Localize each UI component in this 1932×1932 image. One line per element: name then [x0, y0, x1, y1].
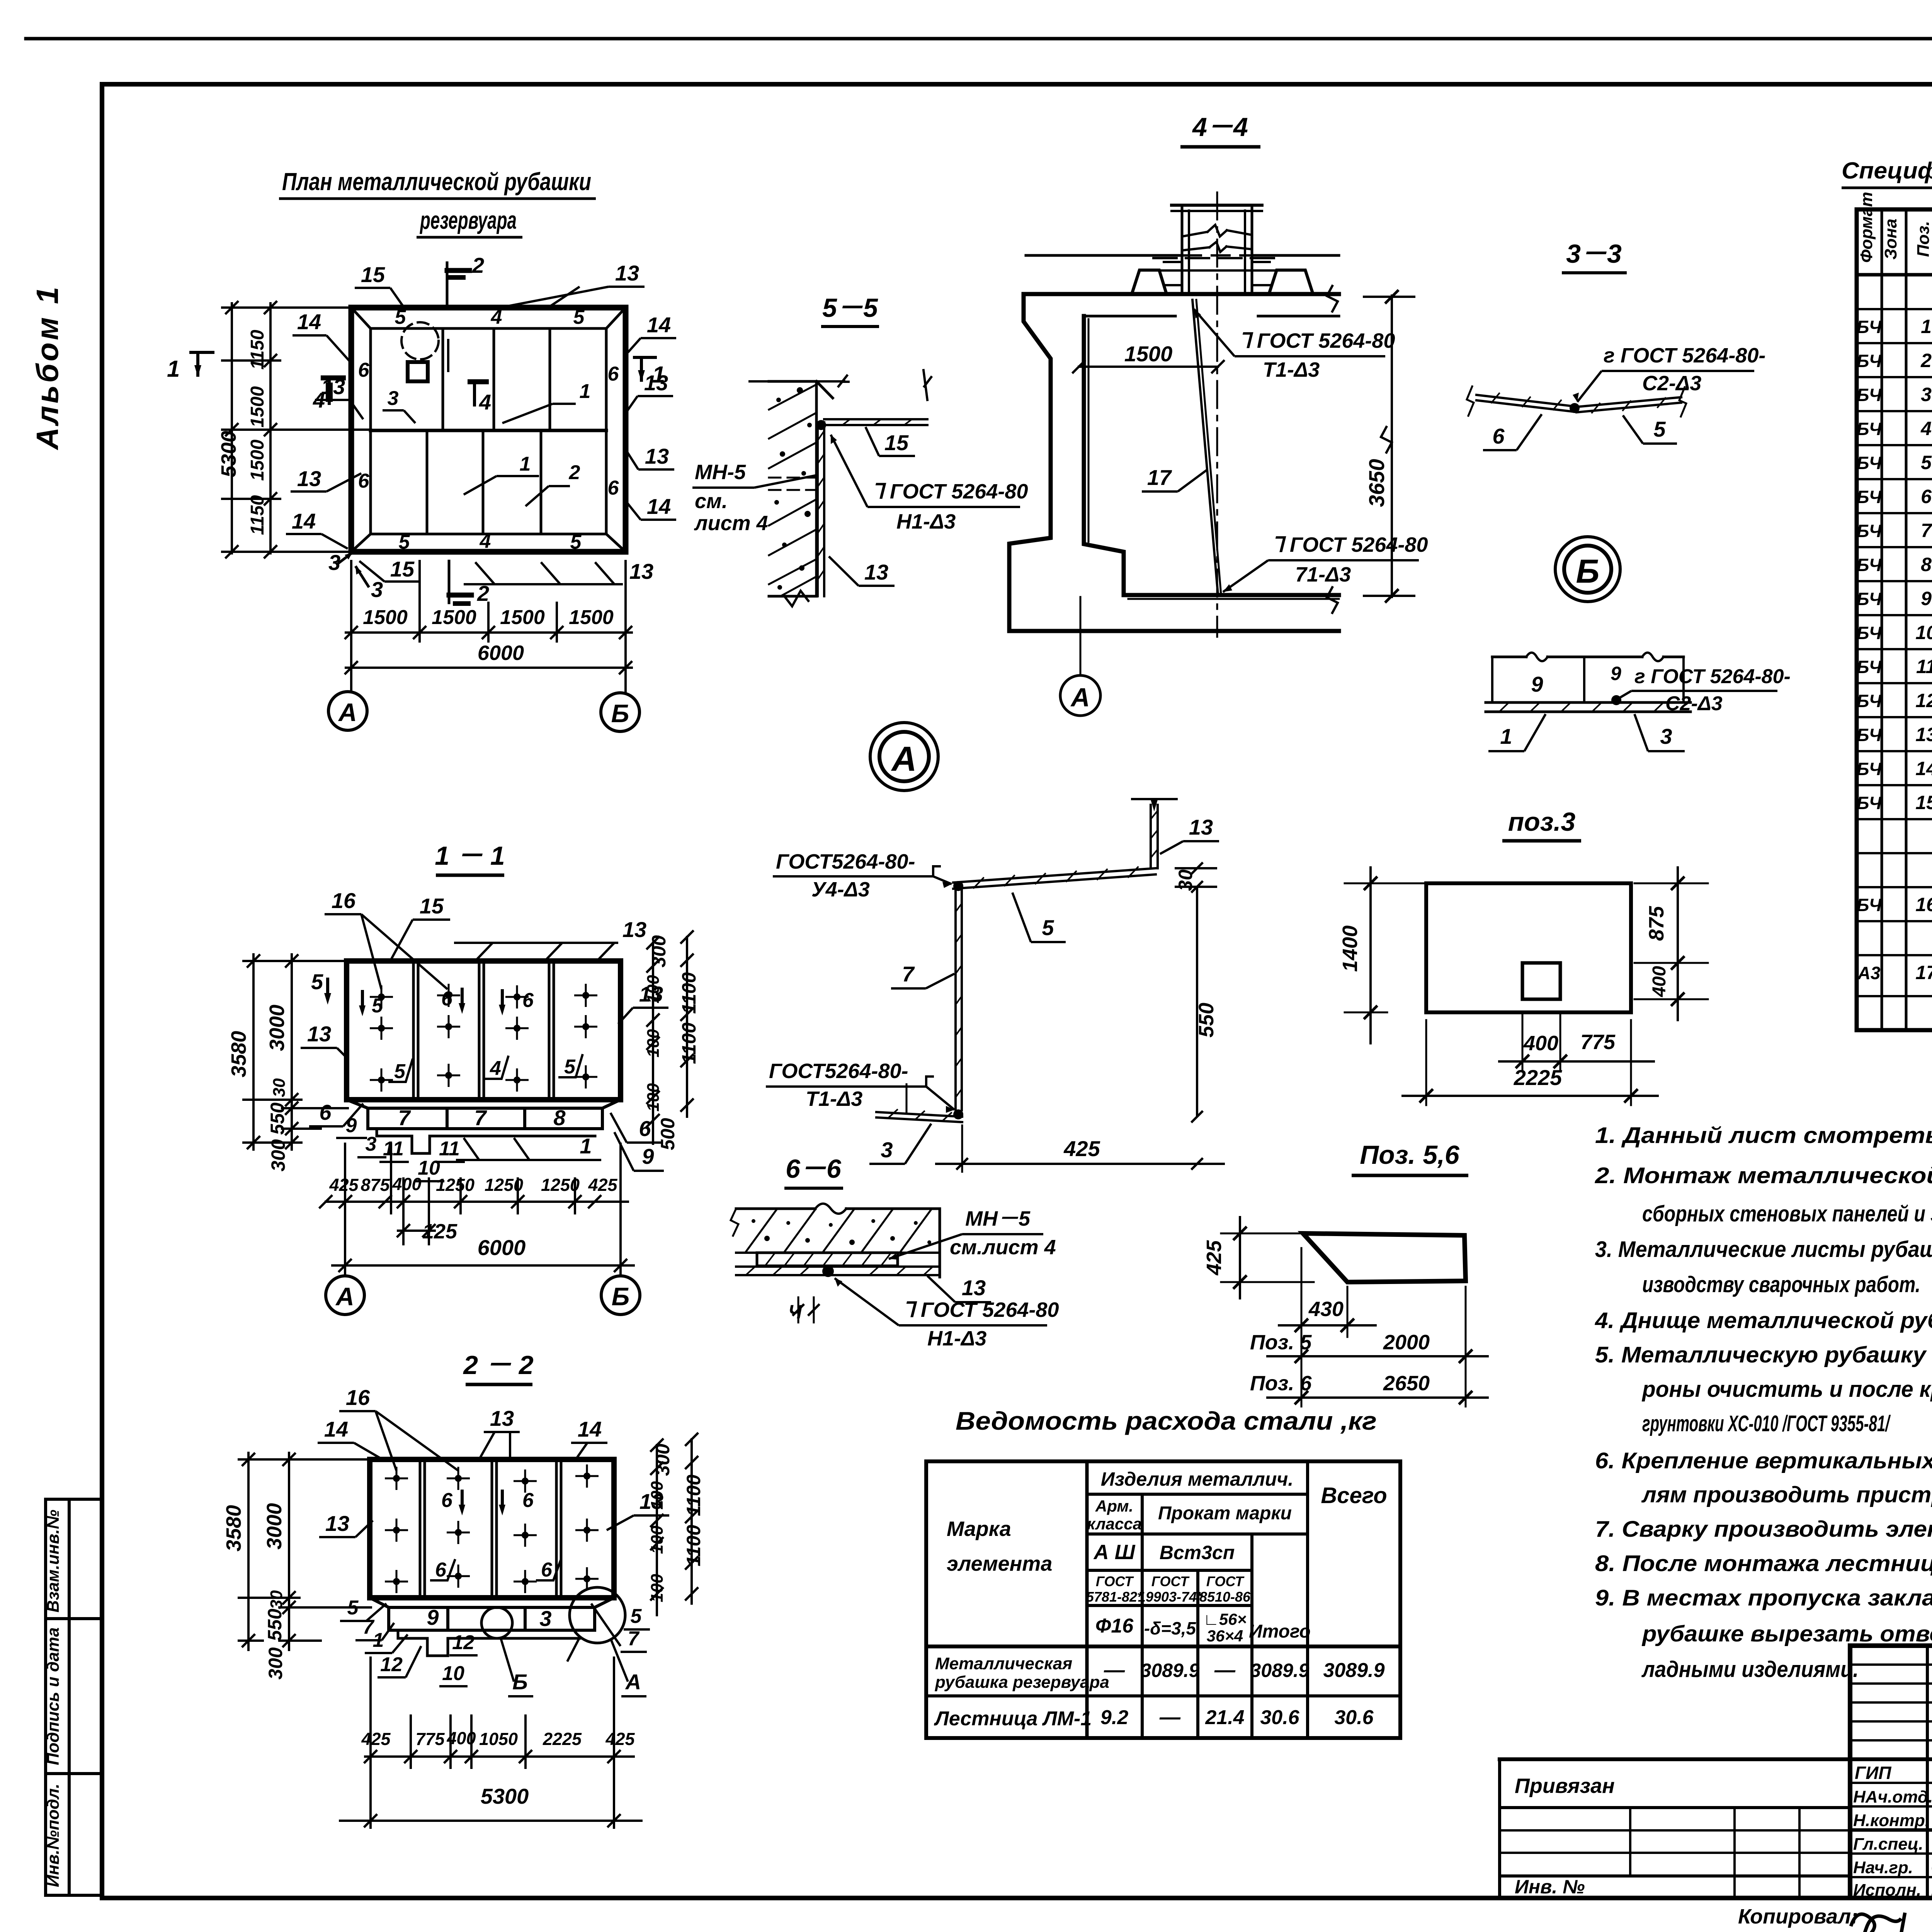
svg-text:4: 4 [1920, 418, 1932, 439]
svg-text:425: 425 [605, 1729, 635, 1749]
svg-text:1150: 1150 [247, 495, 268, 535]
svg-text:Альбом 1: Альбом 1 [30, 284, 65, 450]
svg-text:6: 6 [441, 1489, 453, 1512]
svg-text:6: 6 [608, 363, 619, 385]
svg-text:сборных стеновых панелей и: сборных стеновых панелей и заделки швов … [1642, 1201, 1932, 1226]
svg-text:30: 30 [1175, 869, 1196, 891]
svg-text:МН-5: МН-5 [695, 461, 746, 484]
svg-text:1100: 1100 [683, 1475, 704, 1516]
svg-text:Б: Б [612, 1282, 630, 1311]
svg-text:6: 6 [435, 1559, 447, 1581]
svg-text:Нач.гр.: Нач.гр. [1853, 1858, 1913, 1877]
svg-text:13: 13 [307, 1022, 331, 1046]
svg-text:БЧ: БЧ [1857, 521, 1882, 541]
5-5 weld dot [816, 420, 826, 430]
svg-text:2: 2 [472, 253, 484, 277]
1-1 floor sheet edge [377, 1129, 595, 1153]
svg-text:15: 15 [1915, 792, 1932, 813]
svg-text:ᒣ ГОСТ 5264-80: ᒣ ГОСТ 5264-80 [1238, 329, 1395, 352]
svg-text:резервуара: резервуара [420, 206, 517, 234]
svg-text:13: 13 [297, 466, 321, 491]
big detail circle A [870, 723, 938, 791]
svg-text:8: 8 [553, 1105, 566, 1130]
5-5 construction joint dashed [769, 477, 816, 479]
svg-text:грунтовки ХС-010 /ГОСТ 9355-: грунтовки ХС-010 /ГОСТ 9355-81/ [1642, 1411, 1891, 1436]
svg-text:3: 3 [366, 1133, 377, 1155]
svg-text:1150: 1150 [247, 330, 268, 370]
svg-text:1 － 1: 1 － 1 [435, 841, 505, 871]
z-profile 425 dim [961, 1124, 963, 1173]
svg-text:Взам.инв.№: Взам.инв.№ [44, 1510, 63, 1612]
svg-text:Вст3сп: Вст3сп [1160, 1542, 1235, 1563]
6-6 weld dot [822, 1265, 834, 1277]
svg-text:30.6: 30.6 [1260, 1706, 1299, 1729]
svg-text:100: 100 [648, 1526, 667, 1554]
svg-text:7: 7 [902, 962, 915, 986]
svg-text:5781-82*: 5781-82* [1086, 1589, 1143, 1605]
svg-text:9. В местах пропуска заклад: 9. В местах пропуска закладных изделий К… [1595, 1585, 1932, 1611]
z-profile 30 dim [1175, 867, 1217, 869]
2-2 wall panels outline [370, 1459, 614, 1598]
svg-text:поз.3: поз.3 [1508, 807, 1576, 837]
svg-text:550: 550 [264, 1609, 286, 1641]
svg-text:11: 11 [439, 1138, 460, 1160]
svg-text:БЧ: БЧ [1857, 725, 1882, 745]
svg-text:4: 4 [479, 390, 491, 414]
svg-text:1500: 1500 [363, 606, 408, 629]
2-2 bottom dim lines [365, 1755, 634, 1758]
svg-text:5: 5 [631, 1605, 642, 1628]
svg-text:А3: А3 [1857, 963, 1881, 983]
svg-text:425: 425 [1202, 1240, 1226, 1276]
svg-text:БЧ: БЧ [1857, 453, 1882, 473]
svg-text:16: 16 [1915, 894, 1932, 915]
svg-text:1100: 1100 [678, 1022, 700, 1064]
svg-text:Спецификация изделий на мет: Спецификация изделий на металлическую ру… [1842, 158, 1932, 184]
svg-text:БЧ: БЧ [1857, 555, 1882, 575]
svg-text:ГОСТ: ГОСТ [1096, 1573, 1134, 1589]
svg-text:10: 10 [442, 1662, 464, 1685]
svg-text:6: 6 [319, 1100, 332, 1124]
svg-text:9: 9 [346, 1114, 357, 1137]
svg-text:6: 6 [608, 477, 619, 499]
svg-text:14: 14 [647, 494, 671, 519]
svg-text:1500: 1500 [569, 606, 614, 629]
svg-text:1: 1 [580, 1134, 592, 1158]
6-6 aggregate dots [752, 1219, 931, 1245]
svg-text:3－3: 3－3 [1566, 239, 1622, 269]
svg-text:5: 5 [394, 1060, 406, 1083]
joint weld dot [1611, 695, 1621, 705]
svg-text:9: 9 [1611, 663, 1621, 684]
svg-text:12: 12 [452, 1631, 474, 1654]
5-5 concrete wall outline [769, 381, 816, 596]
svg-text:550: 550 [267, 1102, 288, 1135]
svg-text:1500: 1500 [1124, 342, 1173, 366]
svg-text:14: 14 [324, 1417, 348, 1441]
svg-text:30.6: 30.6 [1334, 1706, 1374, 1729]
svg-text:БЧ: БЧ [1857, 419, 1882, 439]
svg-text:ᒣ ГОСТ 5264-80: ᒣ ГОСТ 5264-80 [1271, 533, 1428, 556]
1-1 bottom flange [347, 1100, 621, 1108]
4-4 axis circle A [1060, 675, 1100, 716]
svg-text:БЧ: БЧ [1857, 589, 1882, 609]
plan top-half panel joints [442, 328, 444, 430]
svg-text:125: 125 [422, 1220, 457, 1243]
svg-text:элемента: элемента [947, 1552, 1052, 1575]
svg-text:БЧ: БЧ [1857, 793, 1882, 813]
svg-text:9.2: 9.2 [1100, 1706, 1128, 1729]
svg-text:Подпись и дата: Подпись и дата [44, 1628, 63, 1765]
svg-text:15: 15 [390, 557, 415, 581]
svg-text:11: 11 [383, 1138, 404, 1160]
2-2 panel joints [419, 1459, 422, 1598]
svg-text:13: 13 [325, 1511, 349, 1536]
svg-text:875: 875 [361, 1175, 390, 1195]
2-2 bottom strip [389, 1607, 595, 1630]
svg-text:1: 1 [652, 362, 665, 388]
svg-text:3: 3 [881, 1138, 893, 1162]
svg-text:5: 5 [399, 531, 410, 553]
svg-text:13: 13 [629, 559, 653, 583]
svg-text:13: 13 [962, 1276, 986, 1300]
6-6 thickness dim 4 [798, 1296, 799, 1323]
svg-text:6: 6 [541, 1559, 553, 1581]
svg-text:12: 12 [1915, 690, 1932, 711]
svg-text:Поз.: Поз. [1914, 221, 1932, 257]
1-1 axis circle A [326, 1276, 364, 1315]
svg-text:рубашка резервуара: рубашка резервуара [935, 1673, 1109, 1692]
left extension table [1498, 1759, 1501, 1898]
svg-text:ГОСТ5264-80-: ГОСТ5264-80- [776, 850, 915, 873]
svg-text:425: 425 [1063, 1136, 1100, 1161]
svg-text:Ведомость расхода стали ,кг: Ведомость расхода стали ,кг [956, 1406, 1377, 1435]
pos56 ref verticals [1301, 1248, 1303, 1406]
pos56 2000 dim [1267, 1355, 1488, 1357]
svg-text:1500: 1500 [432, 606, 476, 629]
svg-text:15: 15 [420, 894, 444, 918]
svg-text:775: 775 [1580, 1031, 1616, 1054]
svg-text:рубашке вырезать отверстия: рубашке вырезать отверстия по месту и об… [1641, 1621, 1932, 1646]
4-4 right break marks [1327, 286, 1338, 311]
svg-text:13: 13 [864, 560, 888, 584]
svg-text:1: 1 [520, 453, 531, 475]
svg-text:7: 7 [1921, 520, 1932, 541]
svg-text:1050: 1050 [479, 1729, 518, 1749]
svg-text:100: 100 [648, 1574, 667, 1602]
svg-text:19903-74*: 19903-74* [1138, 1589, 1203, 1605]
svg-text:2. Монтаж металлической руб: 2. Монтаж металлической рубашки начинать… [1595, 1163, 1932, 1188]
1-1 axis circle B [601, 1276, 640, 1315]
4-4 axis leader [1080, 597, 1082, 675]
svg-text:БЧ: БЧ [1857, 317, 1882, 337]
4-4 3650 dim [1391, 296, 1393, 597]
svg-text:400: 400 [1523, 1032, 1558, 1055]
page top spine line [26, 37, 1932, 41]
plan section 2-2 trace vertical top [446, 263, 449, 309]
plan corner chamfers [351, 308, 371, 328]
svg-text:5: 5 [1042, 915, 1054, 940]
svg-text:4: 4 [490, 1057, 501, 1080]
svg-text:БЧ: БЧ [1857, 623, 1882, 643]
plan inner outline [371, 328, 606, 534]
svg-text:Б: Б [1576, 553, 1600, 590]
svg-text:Лестница ЛМ-1: Лестница ЛМ-1 [934, 1708, 1092, 1730]
svg-text:425: 425 [361, 1729, 391, 1749]
svg-text:100: 100 [644, 1029, 663, 1058]
svg-text:—: — [1159, 1706, 1181, 1729]
svg-text:5－5: 5－5 [822, 293, 878, 323]
svg-text:БЧ: БЧ [1857, 657, 1882, 677]
svg-text:6: 6 [522, 989, 534, 1012]
joint bottom plate [1486, 701, 1690, 704]
joint upper sheets outline [1492, 656, 1526, 658]
svg-text:13: 13 [615, 261, 639, 285]
svg-text:Б: Б [512, 1670, 528, 1694]
svg-text:3: 3 [388, 387, 399, 410]
2-2 bottom flange [370, 1598, 614, 1607]
svg-text:8. После монтажа лестницы Л: 8. После монтажа лестницы ЛМ-1 окрасить … [1595, 1551, 1932, 1576]
svg-text:5: 5 [570, 531, 582, 553]
plan axis circle B [601, 693, 639, 731]
svg-text:15: 15 [361, 262, 385, 287]
plan axis circle A [328, 692, 367, 730]
plan bottom-half panel joints [426, 430, 429, 534]
2-2 left dim lines [247, 1453, 250, 1650]
3-3 right plate [1577, 397, 1681, 407]
4-4 left outer wall profile [1009, 294, 1339, 631]
6-6 concrete band outline [736, 1207, 815, 1210]
svg-text:У4-Δ3: У4-Δ3 [811, 878, 870, 901]
svg-text:3089.9: 3089.9 [1323, 1659, 1384, 1682]
plan left dim lines [231, 303, 233, 553]
4-4 1500 dim [1079, 366, 1218, 368]
6-6 bottom jacket sheet [736, 1265, 940, 1268]
svg-text:5: 5 [573, 306, 585, 328]
z-profile top flange [953, 868, 1156, 883]
svg-text:5: 5 [372, 995, 383, 1017]
svg-text:1250: 1250 [485, 1175, 523, 1195]
detail circle B [1555, 537, 1620, 602]
spec table frame [1857, 209, 1932, 1030]
svg-text:см.: см. [695, 490, 728, 513]
svg-text:17: 17 [1147, 465, 1172, 490]
svg-text:7: 7 [474, 1105, 487, 1130]
6-6 embedded plate MN-5 [757, 1253, 898, 1266]
svg-text:300: 300 [267, 1139, 289, 1172]
pos3 1400 dim [1369, 867, 1372, 1043]
svg-text:9: 9 [427, 1605, 439, 1629]
svg-text:Всего: Всего [1321, 1483, 1387, 1508]
svg-text:71-Δ3: 71-Δ3 [1295, 563, 1351, 586]
6-6 concrete hatch [746, 1209, 777, 1252]
svg-text:Привязан: Привязан [1515, 1774, 1615, 1798]
svg-text:30: 30 [270, 1078, 289, 1097]
5-5 metal angle top leg [824, 418, 927, 420]
svg-text:9: 9 [1921, 588, 1932, 609]
svg-text:875: 875 [1645, 906, 1668, 941]
svg-text:лям производить пристрелкой: лям производить пристрелкой дюбелями ДГ … [1641, 1482, 1932, 1507]
svg-text:7: 7 [398, 1105, 411, 1130]
svg-text:12: 12 [380, 1653, 403, 1676]
svg-text:Итого: Итого [1249, 1621, 1311, 1642]
4-4 metal liner lines [1088, 319, 1090, 542]
svg-text:1: 1 [167, 356, 180, 382]
svg-text:Т1-Δ3: Т1-Δ3 [1263, 358, 1320, 381]
svg-text:6: 6 [1921, 486, 1932, 507]
svg-text:Изделия металлич.: Изделия металлич. [1101, 1468, 1294, 1490]
plan section 2-2 trace bottom [448, 561, 451, 603]
svg-text:13: 13 [645, 444, 669, 468]
svg-text:3650: 3650 [1364, 459, 1389, 507]
left attribute boxes [46, 1498, 99, 1501]
svg-text:5: 5 [564, 1056, 576, 1078]
svg-text:А: А [335, 1282, 354, 1311]
svg-text:2650: 2650 [1383, 1372, 1430, 1395]
svg-text:6: 6 [441, 988, 453, 1010]
svg-text:3: 3 [1660, 724, 1672, 748]
svg-text:БЧ: БЧ [1857, 487, 1882, 507]
svg-text:15: 15 [884, 430, 909, 455]
svg-text:1: 1 [1921, 316, 1932, 337]
4-4 roof slab bottom [1086, 315, 1175, 318]
plan left dim ticks [226, 302, 238, 313]
svg-text:5300: 5300 [217, 431, 240, 477]
1-1 bottom strip [368, 1108, 602, 1129]
svg-text:А: А [1070, 683, 1090, 712]
svg-text:3: 3 [1921, 384, 1932, 405]
svg-text:16: 16 [332, 888, 356, 913]
svg-text:ГОСТ5264-80-: ГОСТ5264-80- [769, 1060, 908, 1083]
svg-text:6. Крепление вертикальных э: 6. Крепление вертикальных элементов /поз… [1595, 1448, 1932, 1473]
svg-text:Т1-Δ3: Т1-Δ3 [806, 1087, 862, 1111]
1-1 right dim lines [652, 943, 654, 1144]
svg-text:Формат: Формат [1857, 192, 1876, 263]
svg-text:6: 6 [1492, 424, 1505, 448]
svg-text:1100: 1100 [678, 972, 700, 1014]
signature rows [1850, 1782, 1932, 1784]
svg-text:1100: 1100 [683, 1525, 704, 1566]
svg-text:9: 9 [1531, 672, 1543, 696]
steel table frame [926, 1461, 1400, 1738]
svg-text:10: 10 [1915, 622, 1932, 643]
5-5 metal angle vertical leg [816, 422, 819, 596]
svg-text:6: 6 [522, 1489, 534, 1512]
svg-text:30: 30 [267, 1590, 286, 1609]
pos56 425 dim [1239, 1217, 1241, 1298]
svg-text:∟56×: ∟56× [1203, 1610, 1247, 1628]
svg-text:8: 8 [1921, 554, 1932, 575]
svg-text:изводству сварочных работ.: изводству сварочных работ. [1642, 1272, 1920, 1297]
svg-text:6－6: 6－6 [786, 1154, 842, 1184]
svg-text:—: — [1214, 1658, 1236, 1682]
svg-text:3. Металлические листы руба: 3. Металлические листы рубашки должны бы… [1595, 1237, 1932, 1262]
svg-text:БЧ: БЧ [1857, 759, 1882, 779]
5-5 wall hatching [769, 384, 816, 410]
svg-text:4: 4 [491, 306, 502, 328]
svg-text:6000: 6000 [478, 641, 524, 665]
svg-text:А: А [338, 698, 357, 726]
svg-text:400: 400 [1649, 966, 1670, 997]
svg-text:3580: 3580 [227, 1031, 250, 1077]
svg-text:300: 300 [648, 935, 670, 968]
2-2 anchor crosses [385, 1478, 408, 1480]
svg-text:Прокат марки: Прокат марки [1158, 1503, 1292, 1524]
svg-text:300: 300 [652, 1444, 673, 1476]
z-profile web [954, 889, 957, 1110]
svg-text:17: 17 [1915, 962, 1932, 983]
svg-text:9: 9 [642, 1144, 654, 1168]
1-1 left dim lines [252, 954, 255, 1150]
4-4 inner wall and floor [1084, 316, 1339, 595]
svg-text:Марка: Марка [947, 1517, 1011, 1541]
svg-text:11: 11 [1916, 656, 1932, 677]
svg-text:2: 2 [569, 461, 580, 484]
svg-text:План металлической рубашки: План металлической рубашки [282, 168, 591, 196]
svg-text:Копировал:: Копировал: [1738, 1905, 1858, 1928]
svg-text:ладными изделиями.: ладными изделиями. [1641, 1657, 1859, 1682]
svg-text:ᒣ ГОСТ 5264-80: ᒣ ГОСТ 5264-80 [902, 1298, 1059, 1321]
svg-text:13: 13 [639, 1489, 663, 1514]
svg-text:6: 6 [358, 359, 370, 381]
svg-text:21.4: 21.4 [1205, 1706, 1244, 1729]
4-4 hatch chimney [1181, 205, 1184, 293]
svg-text:5: 5 [311, 969, 323, 994]
svg-text:13: 13 [490, 1406, 514, 1430]
svg-text:Поз. 5: Поз. 5 [1250, 1331, 1312, 1354]
4-4 centerline dash-dot [1216, 192, 1218, 637]
pos56 430 dim [1279, 1324, 1376, 1327]
svg-text:см.лист 4: см.лист 4 [950, 1236, 1056, 1259]
main mid separator [1500, 1757, 1932, 1761]
svg-text:ГОСТ: ГОСТ [1206, 1573, 1245, 1589]
pos3 square hole [1522, 963, 1560, 999]
3-3 weld dot [1570, 403, 1580, 413]
svg-text:36×4: 36×4 [1207, 1627, 1243, 1645]
svg-text:4－4: 4－4 [1192, 112, 1248, 142]
z-profile vertical bar 13 [1150, 805, 1152, 868]
svg-text:роны очистить и после крепле: роны очистить и после крепления окрасить… [1641, 1377, 1932, 1402]
svg-text:5: 5 [1921, 452, 1932, 473]
svg-text:430: 430 [1308, 1298, 1344, 1321]
svg-text:7: 7 [628, 1628, 640, 1650]
pos3 bottom dims [1522, 1012, 1524, 1070]
svg-text:класса: класса [1087, 1515, 1142, 1533]
svg-text:13: 13 [1189, 815, 1213, 839]
svg-text:А Ш: А Ш [1093, 1541, 1136, 1564]
svg-text:С2-Δ3: С2-Δ3 [1665, 692, 1723, 715]
svg-text:Исполн.: Исполн. [1853, 1881, 1921, 1900]
3-3 end breaks [1467, 386, 1474, 416]
svg-text:13: 13 [622, 917, 646, 942]
upper small rows [1850, 1663, 1932, 1666]
svg-text:1500: 1500 [247, 386, 268, 427]
svg-text:5. Металлическую рубашку со: 5. Металлическую рубашку со стороны бето… [1595, 1342, 1932, 1367]
svg-text:6: 6 [639, 1116, 651, 1141]
svg-text:1500: 1500 [247, 439, 268, 481]
pos56 2650 dim [1267, 1396, 1488, 1399]
2-2 right dim lines [656, 1445, 658, 1615]
svg-text:Металлическая: Металлическая [935, 1654, 1072, 1673]
svg-text:1250: 1250 [541, 1175, 580, 1195]
svg-text:425: 425 [588, 1175, 617, 1195]
svg-text:1500: 1500 [500, 606, 545, 629]
svg-text:Б: Б [611, 699, 629, 728]
svg-text:Н1-Δ3: Н1-Δ3 [927, 1327, 986, 1350]
plan leader underlines [383, 409, 404, 412]
svg-text:5300: 5300 [481, 1784, 529, 1808]
svg-text:2 － 2: 2 － 2 [463, 1350, 534, 1380]
